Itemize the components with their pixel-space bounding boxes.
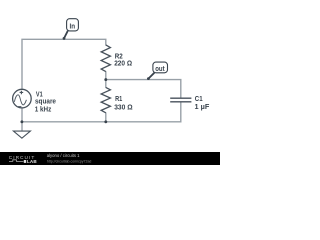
svg-text:R1: R1 <box>115 95 122 103</box>
svg-text:alyono / circuits 1: alyono / circuits 1 <box>47 153 80 158</box>
svg-text:C1: C1 <box>195 95 203 103</box>
svg-text:LAB: LAB <box>27 159 37 164</box>
wire: V1 bottom to ground node <box>21 108 23 122</box>
flag out box <box>153 62 168 73</box>
svg-text:1 µF: 1 µF <box>195 103 210 111</box>
V1 sine glyph <box>14 95 26 105</box>
flag In box <box>67 19 79 31</box>
wire: capacitor bottom to ground net <box>22 102 181 122</box>
svg-text:out: out <box>155 64 165 73</box>
flag In attach dot <box>63 37 66 40</box>
wire: R1 top lead <box>105 80 107 88</box>
wire: R2 bottom lead to mid node <box>105 71 107 79</box>
ground <box>13 131 30 138</box>
flag out pointer <box>148 73 154 79</box>
resistor R1 <box>101 87 110 112</box>
resistor R2 <box>101 45 110 72</box>
svg-text:square: square <box>35 97 56 105</box>
wire: ground stub <box>21 122 23 131</box>
V1 minus sign <box>18 106 21 108</box>
flag out attach dot <box>147 77 150 80</box>
footer bar <box>0 152 220 165</box>
voltage source V1 <box>13 89 32 108</box>
junction dot bottom R1 <box>104 120 107 123</box>
svg-text:1 kHz: 1 kHz <box>35 105 52 113</box>
svg-text:http://circuitlab.com/cpy72ad: http://circuitlab.com/cpy72ad <box>47 159 92 164</box>
logo LAB block <box>24 160 26 163</box>
junction dot mid node <box>104 78 107 81</box>
svg-text:330 Ω: 330 Ω <box>114 104 133 112</box>
logo squarewave glyph <box>9 160 23 162</box>
wire: in net from V1 top over to R2 top <box>22 39 106 89</box>
wire: R1 bottom lead <box>105 112 107 121</box>
V1 plus sign <box>20 91 24 95</box>
svg-text:In: In <box>70 22 76 30</box>
wire: out net to capacitor top <box>106 80 181 98</box>
svg-text:220 Ω: 220 Ω <box>114 60 132 68</box>
capacitor C1 <box>170 98 191 102</box>
flag In pointer <box>64 31 68 39</box>
junction dot ground node <box>20 120 23 123</box>
